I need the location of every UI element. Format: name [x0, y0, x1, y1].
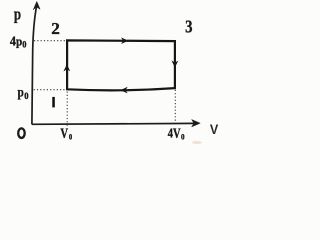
- svg-text:p: p: [18, 85, 25, 100]
- svg-text:3: 3: [185, 17, 192, 37]
- svg-text:p: p: [14, 4, 21, 23]
- svg-text:2: 2: [51, 19, 60, 38]
- svg-text:V: V: [210, 122, 219, 137]
- svg-text:V: V: [60, 126, 68, 142]
- svg-text:0: 0: [69, 131, 73, 141]
- svg-text:0: 0: [24, 91, 29, 101]
- svg-text:V: V: [173, 126, 181, 142]
- svg-text:0: 0: [181, 132, 185, 142]
- svg-text:0: 0: [22, 40, 26, 50]
